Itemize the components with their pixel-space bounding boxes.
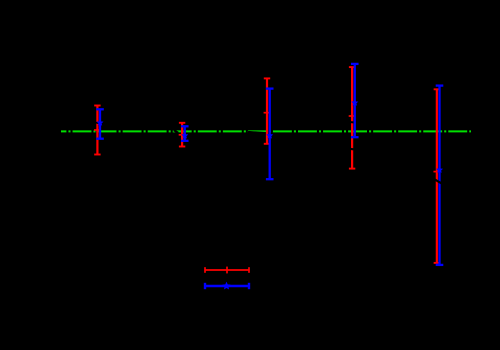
black overlay diagonal mark on point 5 (434, 179, 442, 183)
black overlay cap lower on point 4 (346, 147, 353, 150)
red errorbar point 3 (264, 78, 271, 143)
red errorbar point 5 (433, 89, 440, 263)
red errorbar point 1 (94, 106, 101, 155)
black overlay notch on green line left of point 2 (174, 130, 178, 133)
green zero line (dash-dot) (61, 130, 471, 132)
blue errorbar point 4 (351, 64, 359, 137)
red errorbar point 2 (179, 123, 186, 147)
legend blue errorbar sample (205, 282, 249, 290)
black overlay graze on green line left of point 3 (248, 132, 268, 133)
blue errorbar point 1 (96, 109, 104, 138)
blue errorbar point 3 (266, 89, 274, 180)
black overlay mark on point 1 (95, 123, 101, 124)
blue errorbar point 5 (436, 86, 444, 265)
blue errorbar point 2 (181, 126, 189, 141)
red errorbar point 4 (349, 67, 356, 169)
black overlay cap upper on point 4 (346, 121, 353, 124)
legend red errorbar sample (205, 267, 249, 274)
